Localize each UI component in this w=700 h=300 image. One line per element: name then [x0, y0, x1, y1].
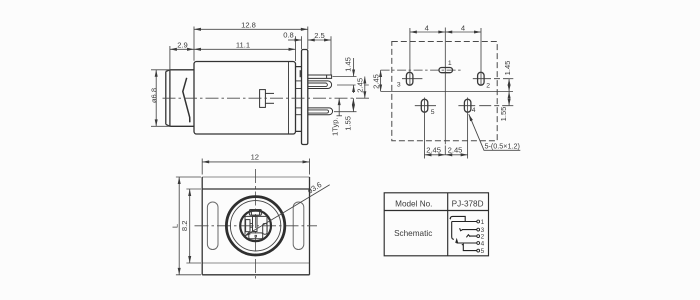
- pin 3 inner outline: [308, 83, 328, 87]
- svg-text:8.2: 8.2: [180, 221, 189, 232]
- schematic terminal circle 1: [477, 220, 480, 223]
- front dim 8.2 line: [189, 189, 191, 263]
- inner center bar: [253, 216, 258, 231]
- schematic terminal circle 5: [477, 249, 480, 252]
- svg-text:Schematic: Schematic: [394, 229, 432, 238]
- front view left edge: [201, 177, 203, 275]
- footprint vertical centerline: [444, 28, 446, 145]
- table outer border: [384, 193, 488, 256]
- schematic terminal 2 line with caret contact: [466, 235, 477, 238]
- footprint dashed outline: [392, 42, 497, 141]
- internal switch contact block: [260, 90, 266, 108]
- front dim 12 extension lines: [202, 159, 309, 175]
- mounting flange plate: [302, 50, 308, 145]
- main body: [194, 62, 296, 135]
- pad 5 tick: [415, 105, 436, 107]
- svg-text:1.45: 1.45: [344, 57, 353, 72]
- pad 4 slot: [464, 99, 471, 112]
- inner bottom dot: [255, 235, 257, 237]
- pin 1 base block in neck: [300, 70, 302, 77]
- inner contact hat inner: [251, 211, 259, 215]
- schematic top bracket contact: [450, 216, 465, 221]
- footprint left dim 2.45: [380, 70, 382, 91]
- front view bottom edge: [202, 274, 309, 276]
- dim 1Typ bottom tick: [337, 115, 343, 117]
- svg-text:2.45: 2.45: [372, 74, 381, 89]
- neck between body and flange: [296, 67, 302, 132]
- pad 1 slot: [439, 68, 453, 73]
- front dim L extension ticks: [176, 177, 201, 275]
- svg-text:PJ-378D: PJ-378D: [452, 199, 484, 208]
- pin 5 inner outline: [308, 110, 329, 113]
- svg-text:ø3.6: ø3.6: [306, 180, 324, 196]
- footprint top dim extension lines: [410, 28, 481, 85]
- svg-text:Model No.: Model No.: [395, 199, 432, 208]
- svg-text:3: 3: [397, 82, 401, 89]
- svg-text:5: 5: [431, 109, 435, 116]
- footprint bottom dim 2.45 right: [445, 154, 467, 156]
- pad 4 tick: [458, 105, 475, 107]
- svg-text:2.45: 2.45: [356, 78, 365, 93]
- svg-text:2: 2: [486, 82, 490, 89]
- svg-text:ø6.8: ø6.8: [150, 88, 159, 103]
- inner hole circle dia 3.6: [240, 210, 271, 241]
- slot size leader line: [469, 114, 521, 150]
- svg-text:12: 12: [251, 153, 259, 162]
- table column divider: [447, 193, 449, 256]
- schematic terminal circle 2: [477, 235, 480, 238]
- svg-text:1Typ.: 1Typ.: [331, 117, 340, 136]
- front view vertical centerline: [255, 169, 257, 282]
- inner plastic square outline: [245, 216, 267, 234]
- inner bottom contact: [249, 233, 263, 239]
- diameter 6.8 extension lines: [151, 70, 171, 127]
- jack barrel cap body: [170, 70, 194, 127]
- middle thin circle: [230, 201, 280, 251]
- pad 4/5 level extension to right dim: [479, 105, 513, 107]
- schematic top contact arrow tip: [449, 218, 451, 220]
- jack barrel cap front face: [166, 70, 170, 127]
- pin 4/5 (bottom pin): [308, 108, 333, 115]
- svg-text:12.8: 12.8: [241, 21, 256, 30]
- front flange light top edge: [202, 176, 309, 178]
- pad 2 tick + extension to right dim: [473, 78, 514, 80]
- footprint bottom dim extension lines: [425, 98, 468, 159]
- left side slot: [207, 202, 218, 250]
- footprint bottom centerline segment: [444, 146, 446, 155]
- switch contact upper lead: [265, 92, 274, 94]
- dim 12.8 extension lines: [194, 27, 308, 61]
- svg-text:1.45: 1.45: [503, 61, 512, 76]
- front dim 12 line: [202, 161, 309, 163]
- pad 3 slot: [406, 72, 413, 85]
- right side slot: [293, 202, 304, 250]
- schematic make-contact triangle: [455, 238, 458, 243]
- dia 3.6 label: [306, 180, 324, 196]
- svg-text:4: 4: [481, 240, 485, 247]
- footprint dim 4 right: [445, 31, 481, 33]
- dim 12.8 line: [194, 28, 308, 30]
- svg-text:2.9: 2.9: [177, 40, 188, 49]
- switch contact lower lead: [265, 102, 274, 104]
- dim 0.8 arrows: [288, 39, 296, 41]
- side view centerline: [163, 97, 372, 99]
- footprint right dim 1.45: [508, 79, 510, 92]
- svg-text:1.55: 1.55: [499, 107, 508, 122]
- dim 1Typ line: [338, 98, 340, 116]
- pad 3 tick: [402, 78, 422, 80]
- svg-text:1: 1: [448, 60, 452, 67]
- pad 5 slot: [421, 99, 428, 112]
- dim 1.55 line: [352, 98, 354, 112]
- footprint bottom dim 2.45 left: [425, 154, 446, 156]
- schematic left vertical with hook: [452, 222, 454, 240]
- front view inner top edge: [202, 188, 309, 190]
- svg-text:L: L: [170, 224, 179, 228]
- svg-text:11.1: 11.1: [236, 40, 250, 49]
- diameter 6.8 dim line: [155, 70, 157, 127]
- pin 1 (top thin pin): [308, 75, 332, 78]
- footprint datum line: [381, 90, 513, 92]
- svg-text:4: 4: [472, 107, 476, 114]
- dim 2.9 line: [170, 48, 194, 50]
- front dim L line: [178, 177, 180, 275]
- pin 4/5 base block: [296, 108, 302, 115]
- inner right contact: [263, 224, 267, 235]
- schematic drawing: [450, 216, 477, 250]
- svg-text:5: 5: [481, 248, 485, 255]
- front view right edge: [309, 177, 311, 275]
- svg-text:2.5: 2.5: [314, 31, 325, 40]
- svg-text:4: 4: [425, 23, 429, 32]
- side view dimensions: [151, 27, 369, 127]
- spring contact inside cap: [183, 78, 190, 123]
- schematic terminal 3 line with contact: [460, 228, 477, 231]
- footprint right dim 1.55: [508, 91, 510, 105]
- svg-text:1.55: 1.55: [344, 116, 353, 131]
- inner contact hat outer: [249, 210, 261, 216]
- schematic terminal 4 line: [457, 242, 477, 244]
- body seam line: [288, 62, 290, 135]
- pin 2/3 base block: [296, 81, 302, 89]
- dim 1.45 arrows: [353, 58, 355, 77]
- pin level extension lines: [333, 77, 369, 112]
- dim 2.45 line: [364, 77, 366, 99]
- schematic terminal circle 3: [477, 228, 480, 231]
- dim 0.8 extension line at flange left: [301, 36, 303, 49]
- outer bezel circle: [226, 197, 284, 255]
- pad 1 tick line: [381, 69, 461, 71]
- svg-text:2.45: 2.45: [426, 146, 441, 155]
- schematic terminal 5 line with L contact: [462, 244, 477, 250]
- svg-text:1: 1: [481, 219, 485, 226]
- svg-text:0.8: 0.8: [283, 31, 294, 40]
- table row divider: [384, 210, 488, 212]
- schematic terminal 1 line: [452, 221, 477, 223]
- dim 11.1 line: [194, 48, 296, 50]
- front dim 8.2 extension ticks: [186, 189, 201, 263]
- dim 2.5 line: [308, 39, 331, 41]
- dia 3.6 leader line: [244, 185, 330, 237]
- front flange light inner bottom edge: [202, 262, 309, 264]
- svg-text:2.45: 2.45: [448, 146, 463, 155]
- front view horizontal centerline: [195, 225, 318, 227]
- footprint dim 4 left: [410, 31, 445, 33]
- schematic terminal circle 4: [477, 242, 480, 245]
- jack barrel cap rim: [169, 70, 171, 127]
- pad 2 slot: [478, 72, 485, 85]
- dim 2.5 extension line at pin tip: [330, 36, 332, 74]
- svg-text:5-(0.5×1.2): 5-(0.5×1.2): [485, 141, 520, 150]
- inner left bracket: [246, 220, 250, 232]
- svg-text:4: 4: [461, 23, 465, 32]
- inner crossbar: [250, 224, 253, 228]
- dim 2.9 / 11.1 extension lines: [170, 36, 296, 69]
- pin 2/3 (middle pin): [308, 81, 332, 89]
